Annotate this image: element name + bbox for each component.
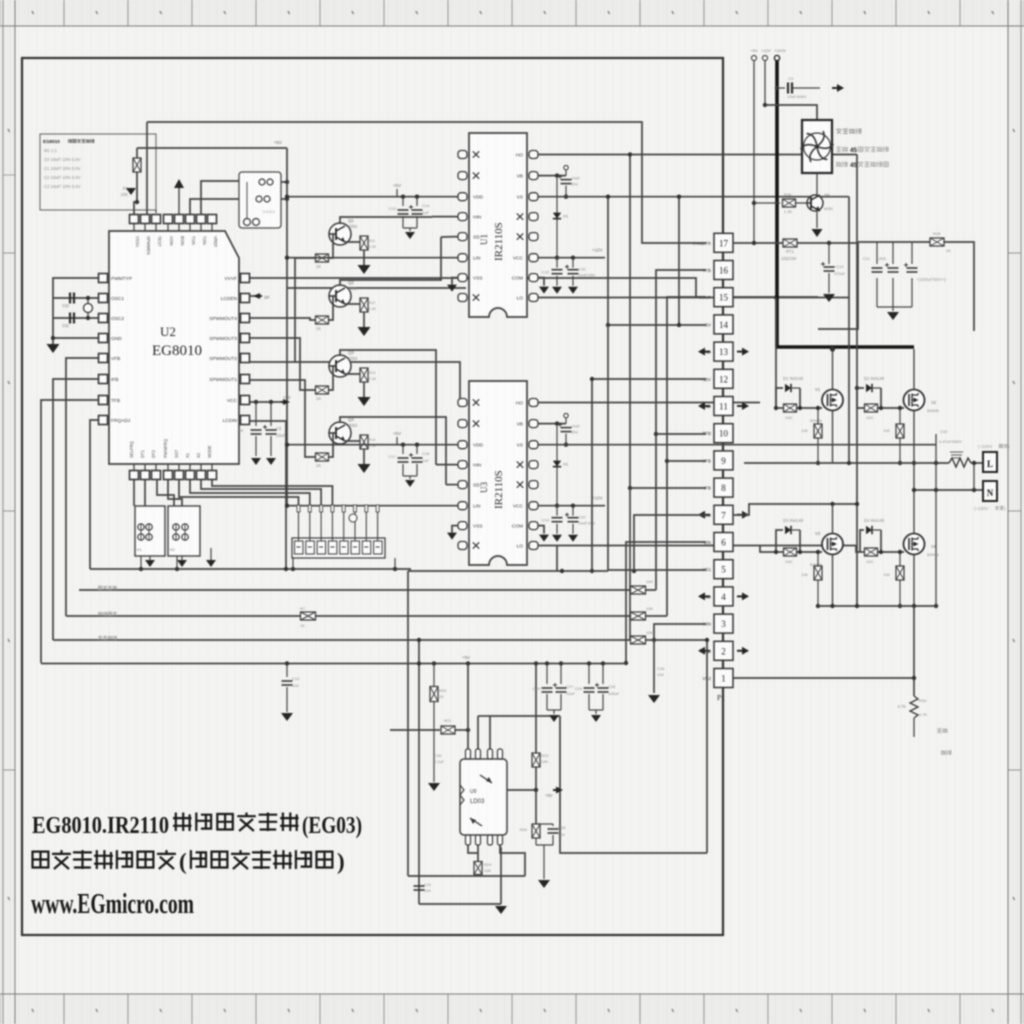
U1 left pin 2 <box>458 172 467 180</box>
svg-text:VS: VS <box>517 195 523 201</box>
U3 right pin 10 <box>529 420 538 428</box>
svg-text:4: 4 <box>721 592 726 602</box>
capacitor C10 470uF <box>828 243 830 264</box>
svg-text:C15: C15 <box>542 270 550 275</box>
svg-text:6: 6 <box>721 538 726 548</box>
ground under Q4 <box>358 464 371 473</box>
wire +5V rail over U2 <box>137 147 287 149</box>
wires into opto top pins <box>467 664 469 750</box>
microcontroller U2 EG8010 <box>109 231 239 464</box>
svg-text:U1: U1 <box>479 234 489 245</box>
cooling fan FAN1 <box>802 120 832 173</box>
collector wire of Q3 <box>340 350 436 465</box>
svg-text:104: 104 <box>424 888 431 893</box>
P1 pin 10 <box>714 424 733 443</box>
svg-text:R24: R24 <box>484 862 492 867</box>
svg-text:8050: 8050 <box>348 286 358 291</box>
svg-text:EG8010: EG8010 <box>43 139 60 144</box>
emitter resistor of Q3 <box>345 368 364 374</box>
U2 right pin 4 <box>241 334 250 343</box>
U3 right pin 12 <box>529 461 538 469</box>
svg-text:104: 104 <box>292 683 299 688</box>
svg-text:8050: 8050 <box>348 423 358 428</box>
svg-text:10K: 10K <box>484 868 491 873</box>
svg-text:C2 10uF/ 10% 5.0V: C2 10uF/ 10% 5.0V <box>44 175 81 180</box>
svg-text:R20: R20 <box>439 688 447 693</box>
svg-text:BSIN: BSIN <box>180 236 185 246</box>
U2 bottom pin 6 <box>186 471 195 480</box>
resistor R21 on input wire <box>390 729 440 731</box>
U2 top pin 7 <box>197 215 206 224</box>
svg-text:C5: C5 <box>276 426 282 431</box>
svg-text:C27: C27 <box>566 684 574 689</box>
V2 source wire down to phase B <box>913 411 915 491</box>
U2 right pin 2 <box>241 294 250 303</box>
U2 right pin 8 <box>241 416 250 425</box>
svg-text:1: 1 <box>721 674 726 684</box>
P1 pin 17 <box>714 233 733 252</box>
svg-text:HO: HO <box>516 153 523 159</box>
wire U1 VS sense <box>538 196 849 198</box>
U2 left pin 2 <box>99 294 108 303</box>
fan annotation text <box>836 128 842 134</box>
svg-text:R7: R7 <box>300 606 306 611</box>
svg-text:PWMTYP: PWMTYP <box>111 276 132 282</box>
svg-text:C30: C30 <box>434 753 442 758</box>
svg-text:R26: R26 <box>520 827 528 832</box>
svg-text:R14: R14 <box>368 437 376 442</box>
U1 right pin 13 <box>529 233 538 241</box>
svg-text:SPWMEN: SPWMEN <box>146 236 151 255</box>
svg-text:EG8010: EG8010 <box>152 343 202 359</box>
svg-text:OSC2: OSC2 <box>111 316 124 322</box>
U2 right pin 7 <box>241 396 250 405</box>
crystal Y1 <box>87 298 89 303</box>
thick +310V horizontal bus <box>775 345 914 349</box>
arc suppression resistor FR1 <box>949 458 971 467</box>
MOSFET V1 <box>822 390 843 411</box>
U1 left pin 5 <box>458 233 467 241</box>
svg-text:+12V: +12V <box>592 248 602 253</box>
transistor Q2 8050 driver <box>329 285 351 307</box>
wire IFB feedback down <box>53 379 98 640</box>
+5V local rail below U3 <box>408 570 608 572</box>
12V filter box <box>818 243 858 329</box>
U3 left pin 1 <box>458 399 467 407</box>
svg-text:RT1: RT1 <box>786 249 795 254</box>
svg-text:10Ω: 10Ω <box>785 416 792 420</box>
svg-text:10uF/25V: 10uF/25V <box>578 521 596 526</box>
collector wire of Q2 <box>340 237 441 286</box>
U3 right pin 15 <box>529 522 538 530</box>
U2 bottom pin 7 <box>197 471 206 480</box>
svg-text:Q1: Q1 <box>348 218 354 223</box>
svg-text:5.1K: 5.1K <box>368 376 377 381</box>
svg-text:10K: 10K <box>541 759 548 764</box>
U9 bottom pin 5 <box>466 835 471 845</box>
svg-text:DT2: DT2 <box>151 449 156 458</box>
V3 drain wire <box>832 504 834 534</box>
bootstrap capacitor beside U3 <box>538 423 566 425</box>
svg-text:470uF: 470uF <box>834 271 846 276</box>
riser wire from rail571 to opto zone <box>407 571 409 876</box>
P1 pin 13 <box>714 342 733 361</box>
svg-text:10uF: 10uF <box>566 691 576 696</box>
svg-text:17: 17 <box>719 238 729 248</box>
emitter ground of Q9 <box>816 211 818 228</box>
svg-text:VCC: VCC <box>513 504 524 510</box>
svg-text:10uF: 10uF <box>571 176 581 181</box>
VCC 12V caps beside U1 <box>538 257 605 259</box>
wire pin14 +5V feed <box>608 324 706 326</box>
transistor Q4 8050 driver <box>329 422 351 444</box>
U2 right pin 3 <box>241 314 250 323</box>
feedback bus VFB <box>79 589 656 591</box>
svg-text:C20: C20 <box>578 515 586 520</box>
feedback bus TFB <box>53 639 707 641</box>
snubber capacitor riser <box>935 434 937 606</box>
U2 left pin 8 <box>99 416 108 425</box>
bleeder resistor R30 4.7K <box>913 606 915 696</box>
base resistor for Q2 <box>316 316 329 324</box>
wire LCDIN down to bottom rail <box>250 421 286 569</box>
svg-text:1K: 1K <box>439 694 444 699</box>
caps C24 C26 under +5V rail <box>588 664 590 685</box>
svg-text:R23: R23 <box>541 753 549 758</box>
resistor R23 10K right of opto <box>535 664 537 754</box>
svg-text:VS: VS <box>517 443 523 449</box>
svg-text:LO: LO <box>517 296 524 302</box>
svg-text:13: 13 <box>719 347 729 357</box>
GND arrows at pin 13 <box>703 351 710 353</box>
+5V rail to pin6 riser <box>603 663 626 665</box>
fan driver transistor Q9 8050 <box>816 173 818 195</box>
wire U3 VS sense <box>538 444 936 446</box>
svg-text:(EG03): (EG03) <box>302 813 362 839</box>
svg-text:VFB: VFB <box>111 356 120 362</box>
P1 pin 6 <box>714 533 733 552</box>
svg-text:10uF/25V: 10uF/25V <box>578 273 596 278</box>
V4 source wire <box>913 555 915 607</box>
riser from rail 571 <box>556 546 558 572</box>
P1 pin 8 <box>714 478 733 497</box>
svg-text:9: 9 <box>721 456 726 466</box>
gate pulldown of V3 <box>817 552 819 566</box>
U1 right pin 10 <box>529 172 538 180</box>
svg-text:VSS: VSS <box>473 524 483 530</box>
U2 bottom pin 2 <box>141 471 150 480</box>
GND arrows at pin 4 <box>703 595 710 597</box>
U2 left pin 4 <box>99 334 108 343</box>
svg-text:M1 1:1: M1 1:1 <box>44 148 57 153</box>
U2 top pin 3 <box>152 215 161 224</box>
U3 VSS ground <box>452 526 458 533</box>
resistor R26 and cap C28 <box>535 790 537 824</box>
svg-text:1uF: 1uF <box>422 458 429 463</box>
svg-text:+5V: +5V <box>393 183 402 188</box>
U3 left pin 8 <box>458 542 467 550</box>
svg-text:5.1K: 5.1K <box>368 306 377 311</box>
P1 pin 15 <box>714 288 733 307</box>
base resistor R36 1.2K <box>752 201 756 205</box>
svg-text:R28: R28 <box>933 231 941 236</box>
svg-text:C31: C31 <box>424 882 432 887</box>
U2 top pin 2 <box>141 215 150 224</box>
svg-text:1K: 1K <box>316 463 321 468</box>
svg-text:10Ω: 10Ω <box>785 560 792 564</box>
+5V rail dots feeding opto <box>432 661 436 665</box>
feedback bus IFB <box>66 615 667 617</box>
caps C25 C27 under +5V rail <box>546 664 548 685</box>
svg-text:10K: 10K <box>801 429 808 433</box>
P1 pin 16 <box>714 261 733 280</box>
wire pin9 VFB <box>667 460 706 462</box>
series resistor R7 mid on IFB bus <box>301 612 316 620</box>
P1 pin 5 <box>714 560 733 579</box>
svg-text:22p: 22p <box>62 303 70 308</box>
RN1 stub 3 <box>320 505 322 541</box>
svg-text:10Ω: 10Ω <box>866 416 873 420</box>
opto surround loop wire <box>560 716 707 853</box>
wire pin16 via mid vertical <box>656 270 706 590</box>
V3 source wire <box>832 555 834 607</box>
wire SPWMOUT2 to Q1 base resistor <box>250 258 317 362</box>
P1 pin 12 <box>714 369 733 388</box>
U2 bottom pin 5 <box>175 471 184 480</box>
svg-text:25V: 25V <box>571 430 578 435</box>
svg-text:C32: C32 <box>940 429 948 434</box>
RN1 stub 8 <box>377 505 379 541</box>
RN1 stub 7 <box>365 505 367 541</box>
P1 pin 7 <box>714 505 733 524</box>
svg-text:ASIN: ASIN <box>169 236 174 246</box>
svg-text:HIN: HIN <box>473 215 482 221</box>
relay box K2 <box>168 506 200 556</box>
svg-text:104: 104 <box>558 832 565 837</box>
up arrow terminal on U2 top pin5 <box>178 188 180 214</box>
U9 bottom pin 6 <box>476 835 481 845</box>
svg-text:R36: R36 <box>784 192 792 197</box>
capacitor C31 <box>414 885 425 887</box>
svg-text:12: 12 <box>719 374 728 384</box>
output terminal N <box>983 481 997 501</box>
svg-text:10K: 10K <box>883 573 890 577</box>
svg-text:D1 IN4148: D1 IN4148 <box>783 376 804 381</box>
U1 VSS ground <box>452 278 458 285</box>
P1 pin 11 <box>714 397 733 416</box>
jumper selection box JP1 <box>239 172 281 228</box>
U1 left pin 1 <box>458 151 467 159</box>
U2 right pin 1 <box>241 274 250 283</box>
wire U1 SD input <box>441 236 458 238</box>
svg-text:SD: SD <box>473 483 480 489</box>
svg-text:TEST: TEST <box>157 236 162 247</box>
svg-text:C26: C26 <box>608 684 616 689</box>
transistor Q1 8050 driver <box>329 223 351 245</box>
svg-text:OSC1: OSC1 <box>111 296 124 302</box>
vertical from +5V rail to bottom <box>418 640 420 904</box>
svg-text:14: 14 <box>719 320 729 330</box>
svg-text:LCDIN: LCDIN <box>223 418 238 424</box>
FANCTR wire with thermistor RT1 <box>733 242 783 244</box>
svg-text:R13: R13 <box>368 370 376 375</box>
svg-text:(~220V: (~220V <box>978 444 992 449</box>
svg-text:U9: U9 <box>470 789 477 795</box>
bootstrap capacitor beside U1 <box>538 175 566 177</box>
resistor R24 label <box>474 862 482 875</box>
U9 bottom pin 8 <box>498 835 503 845</box>
U2 left pin 3 <box>99 314 108 323</box>
GND arrows at pin 2 <box>703 650 710 652</box>
U2 right pin 6 <box>241 375 250 384</box>
U9 bottom pin 7 <box>488 835 493 845</box>
svg-text:C0 10uF/ 10% 5.0V: C0 10uF/ 10% 5.0V <box>44 157 81 162</box>
vertical +5V distribution wire <box>286 148 288 506</box>
svg-text:D6: D6 <box>563 462 569 467</box>
phase B wire to terminal N <box>914 489 983 491</box>
gate pulldown of V2 <box>899 408 901 424</box>
wire U3 HO output <box>538 402 760 404</box>
wire VFB feedback down <box>66 358 98 616</box>
filter capacitors C21 ZD5 C22 <box>876 242 878 264</box>
U1 left pin 4 <box>458 213 467 221</box>
svg-text:+C10: +C10 <box>834 264 844 269</box>
wire spare mesh run A <box>287 287 466 289</box>
svg-text:VDD: VDD <box>473 195 484 201</box>
RN1 stub 5 <box>343 505 345 541</box>
U3 left pin 7 <box>458 522 467 530</box>
U1 VDD supply rail wire <box>287 196 458 198</box>
svg-text:3: 3 <box>721 619 726 629</box>
svg-text:COM: COM <box>512 276 523 282</box>
svg-text:R21: R21 <box>444 718 452 723</box>
U9 top pin 3 <box>488 749 493 759</box>
svg-text:1uF: 1uF <box>422 210 429 215</box>
VS1 riser to phase A <box>848 197 850 463</box>
U1 right pin 11 <box>529 193 538 201</box>
U3 left pin 4 <box>458 461 467 469</box>
gate network V2: resistor and diode D2 <box>856 155 858 607</box>
svg-text:C28: C28 <box>558 825 566 830</box>
thick schematic border box <box>22 58 723 935</box>
svg-text:C4: C4 <box>238 428 244 433</box>
svg-text:K2: K2 <box>170 547 176 552</box>
LCDEN stub with SP arrow <box>250 295 262 297</box>
svg-text:ZD5: ZD5 <box>878 256 886 261</box>
svg-text:SPWMOUT2: SPWMOUT2 <box>209 356 237 362</box>
svg-text:10K: 10K <box>646 579 653 584</box>
power terminal +5V <box>753 60 755 243</box>
svg-text:LIN: LIN <box>473 256 481 262</box>
U9 top pin 4 <box>498 749 503 759</box>
svg-text:SELFRQ: SELFRQ <box>129 441 134 458</box>
U9 top pin 2 <box>476 749 481 759</box>
wire SPWMOUT3 to Q3 base resistor <box>250 338 317 390</box>
bottom rail under relays <box>90 568 411 570</box>
U2 top pin 6 <box>186 215 195 224</box>
MOSFET V3 <box>822 534 843 555</box>
svg-text:VSSA: VSSA <box>135 236 140 247</box>
ground under C10 <box>823 294 835 302</box>
svg-text:60N06: 60N06 <box>810 418 823 423</box>
U3 right pin 11 <box>529 441 538 449</box>
MOSFET V2 <box>904 390 925 411</box>
output terminal L <box>983 452 997 472</box>
svg-text:60N06: 60N06 <box>927 552 940 557</box>
svg-text:8050: 8050 <box>824 206 834 211</box>
svg-text:D4 IN4148: D4 IN4148 <box>864 518 885 523</box>
svg-text:PWMFRQ: PWMFRQ <box>163 438 168 458</box>
svg-text:HIN: HIN <box>473 463 482 469</box>
svg-text:C19: C19 <box>542 518 550 523</box>
svg-text:C16: C16 <box>578 267 586 272</box>
U3 left pin 5 <box>458 481 467 489</box>
svg-text:0.1uF: 0.1uF <box>434 759 445 764</box>
svg-text:100uF: 100uF <box>608 691 620 696</box>
wire U1 LO output <box>538 297 849 299</box>
svg-text:1.2K: 1.2K <box>784 209 793 214</box>
svg-text:+12V: +12V <box>761 48 771 53</box>
wire SPWMOUT4 to Q2 base resistor <box>250 318 317 320</box>
capacitor C33 under feedback resistors <box>653 640 655 693</box>
wire FRQADJ down <box>90 420 98 569</box>
svg-text:25V: 25V <box>571 182 578 187</box>
svg-text:1K: 1K <box>316 396 321 401</box>
V2 drain wire to +310V bus <box>913 349 915 390</box>
capacitor C12 104 on LCDIN rail <box>285 568 287 570</box>
wires U2 bottom pins to relay boxes <box>133 480 135 506</box>
svg-text:C12: C12 <box>292 676 300 681</box>
svg-text:8: 8 <box>721 483 726 493</box>
U2 top pin 4 <box>164 215 173 224</box>
gate network V3: resistor and diode D3 <box>760 546 776 553</box>
VCC 12V caps beside U3 <box>538 505 605 507</box>
svg-text:1K: 1K <box>946 248 951 253</box>
wire SPWMOUT1 to Q4 base resistor <box>250 380 317 457</box>
svg-text:10uF: 10uF <box>276 433 286 438</box>
power terminal +310V thick bus <box>775 60 779 347</box>
U1 left pin 3 <box>458 193 467 201</box>
svg-text:VCC: VCC <box>513 256 524 262</box>
svg-text:VVVF: VVVF <box>224 276 237 282</box>
svg-text:1K: 1K <box>300 623 305 628</box>
GND arrows at pin 11 <box>703 405 710 407</box>
capacitor C9 across bus with terminal arrow <box>775 86 779 90</box>
collector wire of Q1 <box>340 217 432 224</box>
U2 left pin 5 <box>99 354 108 363</box>
U2 right pin 5 <box>241 354 250 363</box>
configuration table legend box <box>40 134 156 210</box>
gate network V1: resistor R31 and diode D1 <box>775 298 777 409</box>
fan supply wire <box>763 103 767 107</box>
U3 LIN feed wire <box>287 505 458 507</box>
svg-text:R12: R12 <box>368 300 376 305</box>
svg-text:+5V: +5V <box>393 431 402 436</box>
MOSFET V4 <box>904 534 925 555</box>
svg-text:X1: X1 <box>185 452 190 458</box>
svg-text:D5: D5 <box>563 214 569 219</box>
svg-text:10uF: 10uF <box>571 424 581 429</box>
svg-text:IR2110S: IR2110S <box>493 470 505 509</box>
U1 right pin 15 <box>529 274 538 282</box>
svg-text:1K: 1K <box>316 326 321 331</box>
capacitor C6 22pF on OSC1 <box>53 297 98 299</box>
series resistor R18 on IFB bus <box>631 612 646 620</box>
wire U2 top pin6 to jumper box <box>190 199 239 214</box>
wire pin6 LIN <box>626 542 706 663</box>
capacitor C7 22pF on OSC2 <box>53 317 98 319</box>
wire pin15 mid vertical <box>667 297 706 616</box>
